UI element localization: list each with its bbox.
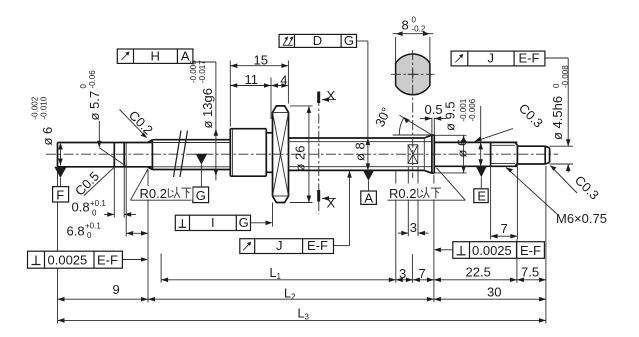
svg-text:-0.06: -0.06: [88, 70, 97, 89]
svg-text:-0.002: -0.002: [31, 96, 40, 119]
svg-text:-0.006: -0.006: [189, 60, 198, 83]
Dia 9.5 collar: [431, 135, 433, 173]
svg-text:0.0025: 0.0025: [48, 253, 88, 268]
dimension dia9.5 collar: [434, 101, 466, 173]
svg-text:-0.2: -0.2: [412, 25, 426, 34]
note R0.2 max left: [130, 169, 192, 201]
dimension dia26 screw OD: [290, 106, 313, 203]
dimension 6.8: [67, 167, 149, 302]
svg-text:E-F: E-F: [520, 243, 541, 258]
svg-text:0: 0: [92, 209, 97, 218]
svg-text:22.5: 22.5: [466, 265, 491, 280]
svg-text:4: 4: [280, 73, 287, 88]
leader C0.3 upper: [475, 101, 546, 142]
section circle centerlines: [391, 73, 435, 75]
left thread section major diameter lines: [152, 139, 230, 141]
leader C0.5: [72, 167, 115, 199]
extension line shaft tip down: [545, 166, 547, 324]
leader M6x0.75: [506, 168, 607, 226]
svg-text:I: I: [211, 215, 215, 230]
svg-text:7: 7: [419, 266, 426, 281]
svg-text:3: 3: [410, 220, 417, 235]
kanji i-ka (below): [168, 187, 191, 199]
extension line M6 end row: [516, 239, 518, 282]
svg-text:30: 30: [487, 285, 501, 300]
svg-text:ø 4.5h6: ø 4.5h6: [550, 96, 565, 140]
svg-text:0: 0: [87, 231, 92, 240]
datum G box: [193, 187, 209, 203]
note R0.2 max right: [388, 168, 466, 201]
dimension row2: 9 L2 30: [58, 282, 547, 302]
svg-text:0: 0: [79, 84, 88, 89]
datum F box: [53, 187, 69, 202]
right journal Dia 6 edges, continuing over M6 thread major: [434, 141, 517, 143]
extension line L1 left: [160, 254, 162, 283]
datum E box: [474, 189, 488, 203]
dimension dia8 + D G leader: [353, 41, 371, 170]
datum G triangle: [196, 154, 208, 165]
M6 thread start face: [490, 142, 492, 166]
dimension 7 M6 thread length: [491, 165, 518, 239]
svg-text:A: A: [364, 191, 373, 206]
frame perpendicularity I G: [175, 215, 250, 231]
svg-text:0.5: 0.5: [425, 102, 443, 117]
ring groove walls: [113, 143, 115, 167]
dimension 0.8 groove width: [72, 167, 137, 218]
datum A box: [361, 191, 377, 204]
svg-text:X: X: [327, 88, 336, 103]
svg-text:E: E: [477, 188, 486, 203]
svg-text:0.0025: 0.0025: [472, 243, 512, 258]
dimension row1: L1 3 7 22.5 7.5: [161, 265, 546, 283]
section tick bottom: [317, 190, 320, 202]
frame runout H A: [117, 48, 193, 63]
svg-text:R0.2: R0.2: [389, 186, 416, 201]
thread runout end face: [423, 138, 425, 170]
section X-X circle with flats, gray filled: [396, 54, 430, 95]
svg-text:M6×0.75: M6×0.75: [556, 211, 607, 226]
svg-text:F: F: [56, 187, 64, 202]
svg-text:G: G: [196, 188, 206, 203]
svg-text:ø 13g6: ø 13g6: [200, 88, 215, 128]
collar before screw: [266, 132, 272, 134]
shaft centerline: [46, 153, 558, 155]
svg-text:11: 11: [245, 72, 259, 87]
wire: left end face: [57, 143, 59, 167]
dimension 0.5 collar width: [420, 102, 447, 135]
left thread root lines: [152, 142, 230, 144]
dimension dia13g6 + H A leader: [189, 60, 218, 181]
frame runout J E-F top right: [451, 51, 545, 66]
svg-text:0.8: 0.8: [72, 200, 90, 215]
svg-text:0: 0: [552, 83, 561, 88]
svg-text:+0.1: +0.1: [90, 199, 106, 208]
dimension 11 and 4: [230, 72, 288, 119]
frame perpendicularity 0.0025 E-F right: [453, 242, 545, 259]
svg-text:+0.1: +0.1: [85, 222, 101, 231]
datum F triangle: [54, 167, 66, 178]
svg-text:-0.010: -0.010: [40, 96, 49, 119]
extension line left end face down: [57, 168, 59, 324]
leader from right 0.0025 frame: [434, 248, 453, 253]
dimension dia6 left: line and arrows: [31, 96, 63, 165]
tip section Dia 4.5h6: [517, 145, 545, 147]
dimension 8 0/-0.2 across flats: [393, 16, 434, 63]
frame runout J E-F bottom: [240, 238, 334, 253]
30 degree chamfer callout: [372, 105, 432, 135]
center dash-dot through thread end mark down to row1: [411, 254, 413, 283]
svg-text:-0.006: -0.006: [468, 98, 477, 121]
M6 end chamfer: [515, 142, 518, 145]
svg-text:6.8: 6.8: [67, 224, 85, 239]
svg-text:ø 5.7: ø 5.7: [87, 91, 102, 121]
break symbol: [174, 131, 182, 178]
svg-text:9: 9: [113, 282, 120, 297]
leader from left 0.0025 frame: [122, 257, 147, 262]
svg-text:E-F: E-F: [307, 238, 328, 253]
datum E triangle: [476, 166, 487, 177]
svg-text:3: 3: [399, 266, 406, 281]
svg-text:8: 8: [402, 18, 409, 33]
datum A triangle: [363, 170, 374, 180]
svg-text:15: 15: [254, 53, 268, 68]
svg-text:G: G: [344, 33, 354, 48]
leader from runout J E-F bottom frame: [334, 171, 352, 246]
frame runout D G: [279, 33, 356, 48]
leader from perpendicularity I G frame: [251, 203, 273, 227]
dimension row3: L3: [58, 307, 546, 323]
svg-text:H: H: [151, 48, 160, 63]
svg-text:D: D: [313, 33, 322, 48]
screw shaft root lines: [289, 141, 432, 143]
dimension 15: [230, 53, 288, 127]
left journal (Dia 6) top/bottom edges: [58, 142, 153, 144]
svg-text:G: G: [239, 215, 249, 230]
tip chamfer C0.3: [544, 146, 546, 164]
svg-text:ø 6: ø 6: [40, 127, 55, 146]
extension line collar down: [433, 175, 435, 302]
svg-text:ø 9.5: ø 9.5: [443, 101, 458, 131]
leader C0.3 tip: [550, 166, 602, 203]
dimension dia6 right with tolerances: [455, 98, 484, 166]
dimension dia5.7 groove: line, arrow, leader into groove: [79, 70, 126, 166]
30deg ramp to collar: [424, 135, 432, 138]
svg-text:-0.017: -0.017: [198, 60, 207, 83]
svg-text:-0.008: -0.008: [561, 65, 570, 88]
svg-text:J: J: [276, 238, 283, 253]
svg-text:7: 7: [501, 221, 508, 236]
dimension 3 thread end mark width: [398, 167, 429, 236]
screw shaft thread OD lines: [289, 137, 425, 139]
svg-text:7.5: 7.5: [521, 265, 539, 280]
svg-text:E-F: E-F: [519, 51, 540, 66]
svg-text:X: X: [327, 196, 336, 211]
extension line thread full profile end: [395, 172, 397, 283]
section tick top: [317, 92, 320, 104]
leader C0.2: [120, 108, 156, 138]
svg-text:R0.2: R0.2: [140, 186, 167, 201]
svg-text:ø 26: ø 26: [293, 145, 308, 171]
svg-text:-0.001: -0.001: [459, 98, 468, 121]
ball screw thread body with cross: [273, 106, 289, 203]
section plane line X-X: [318, 96, 320, 214]
dimension dia4.5h6 tip + J E-F leader: [545, 58, 573, 173]
svg-text:J: J: [488, 51, 495, 66]
thread end mark box with cross: [408, 145, 418, 164]
frame perpendicularity 0.0025 E-F left: [28, 251, 123, 268]
svg-text:ø 8: ø 8: [353, 142, 368, 161]
M6 thread minor lines: [491, 144, 515, 146]
svg-text:0: 0: [412, 16, 417, 25]
svg-text:E-F: E-F: [97, 253, 118, 268]
chamfer at left thread start: [148, 140, 153, 143]
svg-text:ø 6: ø 6: [455, 139, 470, 158]
shoulder (Dia 13g6): [229, 129, 231, 177]
